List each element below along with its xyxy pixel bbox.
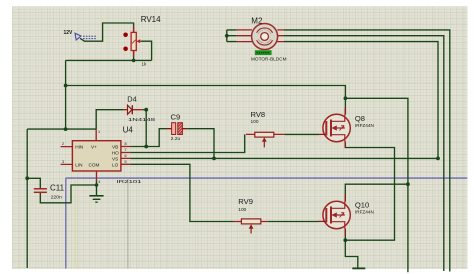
junction drain rail tap [64, 84, 68, 88]
wire LO row [130, 164, 233, 221]
svg-text:VB: VB [112, 145, 118, 150]
svg-text:C9: C9 [171, 112, 181, 121]
svg-text:MOTOR-BLDCM: MOTOR-BLDCM [251, 56, 287, 61]
svg-text:1k: 1k [142, 62, 148, 67]
junction RV14 bottom [132, 59, 136, 63]
svg-text:2.2u: 2.2u [171, 136, 181, 141]
svg-text:U4: U4 [123, 126, 134, 135]
wire RV14 bottom lead [133, 51, 135, 61]
svg-text:M2: M2 [251, 16, 263, 25]
wire V+ rail left drop [26, 129, 28, 268]
junction motor star point [225, 34, 229, 38]
ground bottom right [352, 267, 365, 269]
gray vertical [127, 179, 129, 269]
wire RV14 wiper to row [141, 41, 152, 60]
wire D4 cathode to VB [143, 110, 146, 147]
svg-text:5: 5 [125, 160, 127, 164]
wire V+ rail [27, 128, 96, 130]
svg-text:100: 100 [251, 119, 260, 124]
sheet border blue vertical [65, 178, 67, 268]
wire row RV14 bottom [66, 59, 152, 61]
wire Q10 source to ground [345, 229, 358, 268]
svg-text:3: 3 [62, 160, 64, 164]
junction Q8 drain branch [344, 96, 348, 100]
preset RV9 [233, 197, 268, 234]
wire motor phase top [284, 30, 450, 272]
junction VB pin node [144, 145, 148, 149]
svg-text:LO: LO [112, 162, 119, 167]
wire RV8 to Q8 gate [284, 133, 319, 135]
mosfet Q8 [319, 108, 374, 148]
svg-text:RV9: RV9 [238, 197, 253, 206]
svg-text:HO: HO [112, 151, 119, 156]
preset RV8 [246, 110, 284, 147]
wire C11 top lead [27, 178, 40, 189]
ground COM [89, 196, 103, 202]
wire drain branch right [345, 98, 408, 272]
capacitor C11 [34, 183, 65, 199]
svg-text:1: 1 [98, 130, 100, 134]
wire C11 bottom route [40, 185, 96, 203]
svg-text:HIN: HIN [75, 145, 83, 150]
junction Q10 source [343, 238, 347, 242]
svg-text:12V: 12V [64, 30, 74, 36]
junction C9 to VS [212, 157, 216, 161]
svg-text:1N4148: 1N4148 [128, 117, 156, 122]
junction VS phase C [436, 157, 440, 161]
junction V+ rail [64, 127, 68, 131]
svg-text:C11: C11 [50, 183, 65, 192]
wire C9 right to VS [187, 129, 214, 159]
svg-text:IR2101: IR2101 [117, 179, 143, 185]
wire motor phase mid [284, 36, 444, 271]
wire COM to ground [96, 180, 98, 196]
svg-text:IRFZ44N: IRFZ44N [355, 123, 374, 128]
sheet border blue horizontal [66, 177, 468, 179]
wire VS row [130, 157, 438, 159]
wire RV9 to Q10 gate [268, 221, 319, 223]
svg-text:D4: D4 [127, 94, 136, 103]
svg-text:8: 8 [125, 142, 127, 146]
svg-text:Q8: Q8 [355, 114, 365, 123]
wire HO row [130, 134, 244, 152]
wire 12V lead [80, 23, 134, 41]
wire Q10 drain [345, 184, 408, 201]
svg-text:IRFZ44N: IRFZ44N [355, 210, 374, 215]
power terminal 12V [64, 30, 97, 40]
wire D4 riser [96, 110, 124, 129]
junction C11 top [25, 176, 29, 180]
svg-text:2: 2 [62, 142, 64, 146]
wire motor bracket [225, 30, 237, 42]
svg-text:7: 7 [125, 148, 127, 152]
wire drain rail [66, 86, 346, 115]
junction COM ground [95, 183, 99, 187]
junction Q10 drain node [406, 182, 410, 186]
motor M2 [237, 16, 287, 61]
potentiometer RV14 [123, 15, 161, 67]
IC U4 IR2101 [61, 126, 142, 185]
svg-text:4: 4 [98, 180, 100, 184]
svg-text:100: 100 [238, 207, 247, 212]
wire left vertical to V+ rail [65, 60, 67, 129]
wire motor phase bottom [284, 42, 438, 159]
svg-text:6: 6 [125, 154, 127, 158]
svg-text:220n: 220n [51, 194, 63, 199]
capacitor C9 [167, 112, 188, 140]
diode D4 [124, 94, 156, 122]
svg-text:RV14: RV14 [141, 15, 161, 24]
svg-text:Q10: Q10 [355, 201, 369, 210]
faint yellow vertical [74, 179, 76, 269]
svg-text:COM: COM [89, 163, 100, 168]
svg-text:LIN: LIN [75, 163, 82, 168]
svg-text:RV8: RV8 [251, 110, 266, 119]
svg-text:VS: VS [112, 156, 118, 161]
mosfet Q10 [319, 195, 374, 236]
wire Q8 source down [345, 142, 394, 241]
wire VB row [130, 129, 166, 147]
junction D4 cathode [144, 108, 148, 112]
svg-text:V+: V+ [91, 145, 97, 150]
